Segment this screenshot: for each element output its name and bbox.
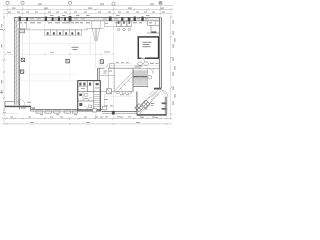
sinks under right stalls bbox=[117, 28, 130, 31]
exterior step marks below slab bbox=[22, 108, 35, 109]
top-right small room bbox=[147, 21, 161, 33]
band text dashes bbox=[30, 17, 148, 20]
faint grid vertical x=29.6 bbox=[29, 30, 31, 110]
tick slashes on dim lines bbox=[7, 9, 172, 15]
stair center rail bbox=[133, 76, 147, 77]
top-right room extra partition bbox=[155, 21, 157, 25]
small shaft bbox=[107, 89, 112, 94]
hall column 3 bbox=[100, 60, 104, 64]
room label specks bbox=[18, 15, 152, 24]
short dim line left bottom bbox=[1, 113, 18, 115]
small dim text right-center bbox=[116, 61, 129, 64]
escalator diagonals bbox=[115, 73, 134, 92]
bottom text specks row bbox=[40, 114, 158, 118]
bottom-left porch step bbox=[5, 100, 15, 102]
top dimension line 2 bbox=[3, 9, 173, 11]
bottom dimension line 2 bbox=[2, 123, 172, 125]
top dimension line 3 bbox=[3, 12, 173, 14]
top rooms row line bbox=[16, 29, 89, 31]
top dimension line 1 bbox=[3, 5, 173, 7]
door jambs / leaders bbox=[89, 36, 91, 54]
small room partition x=104 bbox=[103, 21, 105, 27]
door arc right bbox=[161, 90, 168, 97]
right exterior wall bbox=[159, 17, 161, 88]
wall below stair block bbox=[135, 92, 137, 115]
stair center line bbox=[139, 70, 141, 85]
left vertical dimension line bbox=[3, 15, 5, 123]
bottom wall left-center with window marks bbox=[31, 109, 102, 111]
bottom wall right-center bbox=[102, 111, 137, 113]
grid bubble C bbox=[68, 1, 71, 4]
grid bubble E with cross bbox=[159, 1, 162, 4]
hall column 4 bbox=[20, 70, 23, 73]
faint grid horizontal y=43.5 bbox=[16, 43, 95, 45]
diamond symbol 1 with cross bbox=[135, 104, 143, 112]
landing door arc bbox=[148, 68, 153, 73]
door arc bottom-left bbox=[19, 99, 25, 105]
room partition below corridor bbox=[104, 94, 106, 112]
treads lower flight bbox=[133, 78, 147, 84]
stair right boundary bbox=[146, 68, 148, 87]
corridor labels bbox=[104, 71, 113, 74]
grid bubble A bbox=[6, 1, 9, 4]
misc text specks bottom center bbox=[104, 94, 129, 106]
stair label text bbox=[135, 66, 143, 69]
dark room right (tech room) bbox=[138, 37, 158, 58]
stair bottom wall bbox=[133, 85, 148, 87]
bottom-right wall bbox=[137, 114, 167, 116]
hall column 1 bbox=[21, 58, 25, 62]
landing small box bbox=[148, 76, 151, 79]
bottom dimension line 1 bbox=[2, 117, 172, 119]
right wall corner jut bbox=[154, 88, 161, 90]
main stair right: treads upper flight bbox=[133, 70, 147, 75]
wc stall row center bbox=[45, 30, 82, 35]
core block (wc/elevator cluster) bbox=[78, 81, 101, 111]
right lower wall bbox=[164, 97, 166, 115]
hall column 2 bbox=[66, 59, 70, 63]
wall columns bbox=[19, 16, 144, 21]
vestibule line bbox=[86, 27, 104, 29]
dim text row specks above line2 bbox=[12, 8, 164, 9]
right vertical dimension line bbox=[170, 14, 172, 120]
door in bottom wall bbox=[93, 109, 97, 112]
left exterior wall with hatch bbox=[15, 21, 20, 105]
faint grid vertical x=44.9 bbox=[44, 21, 46, 35]
faint hall line y=74.8 bbox=[20, 74, 78, 76]
core mini stair treads bbox=[94, 95, 100, 107]
faint interior dim line y=54 bbox=[5, 53, 114, 55]
sinks below room bbox=[138, 62, 143, 65]
ticks below corridor wall bbox=[116, 92, 131, 94]
dim text row specks above line3 bbox=[8, 11, 165, 14]
stair top wall bbox=[133, 67, 159, 69]
top-left room partitions bbox=[16, 27, 31, 29]
dim text row specks above line1 bbox=[38, 4, 154, 5]
core fixtures bbox=[79, 83, 98, 106]
column on bottom wall bbox=[112, 111, 115, 115]
grid bubble B bbox=[21, 1, 24, 4]
grid leader lines bbox=[8, 5, 161, 119]
diagonal ramp band bottom right bbox=[135, 96, 154, 114]
top-left fixture block bbox=[19, 29, 25, 33]
hall label bbox=[72, 47, 79, 50]
door gap + arc on room bottom bbox=[141, 57, 146, 59]
interior light line x=22 bbox=[21, 21, 23, 58]
corridor line y=65.5 bbox=[99, 65, 161, 67]
stair left wall bbox=[132, 68, 134, 91]
box above corridor bbox=[109, 64, 114, 69]
wc stall row right bbox=[116, 26, 132, 28]
top exterior wall band bbox=[14, 17, 161, 20]
diamond symbol 2 with cross bbox=[142, 100, 150, 108]
faint horizontal line y=81 left of core bbox=[20, 80, 78, 82]
entrance double door leaves bbox=[92, 28, 99, 41]
leader x=70 extension bbox=[69, 30, 71, 81]
ramp diagonals bottom right of stair bbox=[149, 89, 162, 101]
corridor center walls bbox=[97, 68, 99, 88]
small door block right of core bbox=[103, 106, 107, 109]
grid bubble D bbox=[112, 2, 115, 5]
